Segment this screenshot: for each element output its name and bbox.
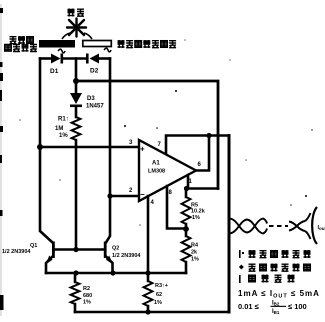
svg-text:2: 2 — [129, 188, 133, 194]
svg-text:1%: 1% — [191, 257, 199, 263]
svg-text:10.2k: 10.2k — [191, 209, 206, 215]
svg-text:−: − — [140, 190, 145, 199]
svg-text:≤ 100: ≤ 100 — [288, 302, 307, 311]
svg-text:7: 7 — [158, 142, 162, 148]
svg-text:0.01 ≤: 0.01 ≤ — [238, 302, 259, 311]
svg-text:R3↑+: R3↑+ — [155, 283, 168, 289]
svg-text:1%: 1% — [59, 133, 68, 139]
svg-text:1%: 1% — [83, 300, 91, 306]
svg-text:Q2: Q2 — [112, 246, 119, 252]
svg-text:R4: R4 — [191, 243, 199, 249]
svg-text:1%: 1% — [154, 300, 162, 306]
svg-text:LM308: LM308 — [148, 169, 165, 175]
svg-text:680: 680 — [83, 293, 92, 299]
svg-text:IB2: IB2 — [272, 301, 280, 307]
svg-text:D1: D1 — [50, 68, 59, 75]
svg-text:1M: 1M — [55, 126, 63, 132]
svg-text:4: 4 — [151, 200, 155, 206]
svg-text:R1↑: R1↑ — [58, 117, 69, 123]
svg-text:1%: 1% — [192, 215, 200, 221]
svg-text:2k: 2k — [191, 250, 198, 256]
svg-text:1/2 2N3904: 1/2 2N3904 — [2, 249, 31, 255]
svg-text:1mA ≤ IOUT ≤ 5mA: 1mA ≤ IOUT ≤ 5mA — [238, 289, 320, 300]
svg-text:1/2 2N3904: 1/2 2N3904 — [112, 253, 141, 259]
svg-text:1: 1 — [189, 179, 193, 185]
svg-text:62: 62 — [156, 292, 162, 298]
svg-text:D3: D3 — [87, 96, 95, 102]
svg-text:IB1: IB1 — [272, 309, 280, 315]
svg-text:Q1: Q1 — [30, 243, 37, 249]
svg-text:3: 3 — [129, 140, 133, 146]
svg-text:6: 6 — [198, 162, 202, 168]
svg-text:8: 8 — [169, 190, 173, 196]
svg-text:A1: A1 — [152, 161, 160, 167]
svg-text:D2: D2 — [90, 68, 99, 75]
svg-text:+: + — [140, 145, 145, 154]
svg-text:1N457: 1N457 — [86, 104, 104, 110]
svg-text:Iout: Iout — [318, 225, 325, 231]
svg-text:R2: R2 — [83, 286, 90, 292]
